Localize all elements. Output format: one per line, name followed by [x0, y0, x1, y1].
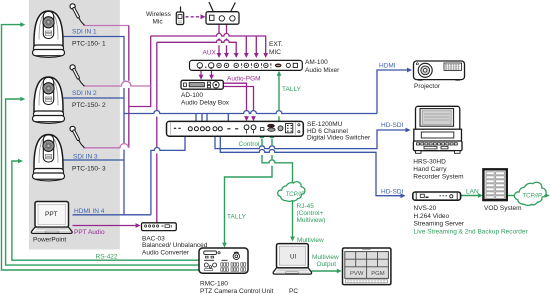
wire RS-422 camera1	[2, 25, 200, 270]
arrow LAN into VOD	[478, 193, 483, 198]
label TCP/IP right cloud	[523, 194, 542, 200]
label UI on screen	[290, 254, 296, 261]
arrow RS-422 camera1	[20, 22, 25, 27]
svg-text:SDI IN 1: SDI IN 1	[72, 29, 97, 36]
arrow multiview into PC	[290, 237, 295, 242]
svg-text:AM-100: AM-100	[305, 59, 328, 66]
svg-text:RMC-180: RMC-180	[200, 280, 228, 287]
svg-text:Audio Converter: Audio Converter	[142, 250, 190, 257]
svg-text:H.264 Video: H.264 Video	[414, 213, 450, 220]
controller RMC-180	[199, 248, 248, 273]
label TALLY upper	[282, 86, 302, 93]
arrow tally into RMC	[222, 243, 227, 248]
svg-text:PTC-150- 2: PTC-150- 2	[72, 102, 106, 109]
svg-text:TCP/IP: TCP/IP	[286, 192, 305, 198]
label SDI IN 2	[72, 90, 97, 97]
svg-text:HD-SDI: HD-SDI	[381, 122, 404, 129]
label PC	[289, 288, 298, 294]
wire HDMI IN 4 from laptop	[73, 214, 151, 216]
wire video input corridor	[124, 111, 377, 114]
wire mixer AUX to delay box 2	[211, 70, 213, 75]
camera PTC-150-1	[33, 11, 65, 58]
arrow bus B into mixer	[234, 53, 239, 58]
microphone 3	[70, 126, 85, 147]
wire bus A drops to mixer	[246, 36, 256, 54]
label RJ-45 Control+Multiview	[297, 203, 326, 224]
arrow dashed link into receiver	[201, 14, 206, 19]
arrows Audio-PGM into switcher	[244, 116, 256, 121]
svg-text:SDI IN 2: SDI IN 2	[72, 90, 97, 97]
svg-text:HRS-30HD: HRS-30HD	[413, 159, 446, 166]
arrow control into switcher 2	[270, 133, 275, 138]
wire multiview cloud to PC	[292, 200, 294, 237]
label PTC-150-3	[72, 165, 106, 172]
svg-text:PTZ Camera Control Unit: PTZ Camera Control Unit	[200, 288, 274, 294]
label Wireless Mic	[146, 11, 172, 25]
wire BAC audio trunk	[156, 42, 158, 223]
laptop PC	[273, 244, 312, 275]
projector	[414, 61, 465, 80]
svg-text:SDI IN 3: SDI IN 3	[73, 154, 98, 161]
svg-text:Streaming Server: Streaming Server	[414, 221, 465, 228]
camera PTC-150-2	[33, 77, 65, 124]
arrows receiver into mixer	[217, 53, 229, 58]
label Multiview into PC	[297, 237, 324, 244]
label Audio-PGM	[227, 76, 261, 83]
svg-text:Control: Control	[239, 141, 261, 148]
label PPT Audio	[74, 229, 105, 236]
camera PTC-150-3	[33, 135, 65, 182]
switcher SE-1200MU box	[167, 121, 304, 136]
laptop PowerPoint	[31, 202, 72, 234]
label RS-422	[96, 253, 118, 260]
svg-text:PTC-150- 1: PTC-150- 1	[72, 40, 106, 47]
wire control tally to RMC	[225, 139, 273, 244]
svg-text:Multiview: Multiview	[312, 254, 339, 261]
arrow TALLY into mixer	[277, 71, 282, 76]
svg-text:Multiview): Multiview)	[297, 217, 326, 224]
wire SDI camera2	[64, 97, 125, 99]
label Projector	[414, 83, 441, 90]
svg-text:RS-422: RS-422	[96, 253, 118, 260]
arrow into NVS server	[401, 193, 406, 198]
wire jog into switcher bottom	[151, 136, 185, 215]
label TALLY lower	[227, 213, 247, 220]
svg-text:AUX: AUX	[203, 50, 217, 57]
arrow multiview output	[337, 269, 342, 274]
wire LAN	[461, 195, 479, 197]
wire mic2 audio pigtail	[83, 81, 151, 86]
label NVS-20 server	[414, 205, 465, 228]
svg-text:Mic: Mic	[153, 18, 164, 25]
svg-text:Recorder System: Recorder System	[413, 174, 463, 181]
wire control RJ-45 branch	[262, 139, 293, 187]
wire HDMI to projector	[377, 70, 408, 114]
label Multiview Output	[312, 254, 339, 268]
svg-text:HD-SDI: HD-SDI	[381, 188, 404, 195]
svg-text:TALLY: TALLY	[227, 213, 247, 220]
label PowerPoint	[33, 237, 66, 244]
converter BAC-03	[142, 223, 177, 231]
svg-text:Live Streaming & 2nd Backup Re: Live Streaming & 2nd Backup Recorder	[414, 228, 529, 235]
wire wireless receiver out 1	[218, 24, 220, 54]
label SE-1200MU switcher	[307, 121, 371, 141]
label PTC-150-2	[72, 102, 106, 109]
wire Audio-PGM 1	[223, 83, 246, 117]
svg-text:Wireless: Wireless	[146, 11, 172, 18]
wire mic1 audio trunk	[129, 26, 151, 148]
svg-text:Audio Delay Box: Audio Delay Box	[181, 100, 230, 107]
arrow cloud outlet	[545, 193, 550, 198]
label AD-100 Audio Delay Box	[181, 92, 230, 107]
label SDI IN 1	[72, 29, 97, 36]
label HD-SDI upper	[381, 122, 404, 129]
svg-text:PTC-150- 3: PTC-150- 3	[72, 165, 106, 172]
svg-text:NVS-20: NVS-20	[414, 205, 437, 212]
label EXT. MIC	[269, 41, 283, 56]
wire wireless receiver out 2	[226, 24, 228, 54]
microphone 2	[70, 65, 85, 86]
svg-text:RJ-45: RJ-45	[297, 203, 315, 210]
arrow RS-422 camera3	[18, 159, 23, 164]
recorder HRS-30HD	[413, 106, 462, 153]
wire mixer AUX to delay box 1	[200, 70, 202, 75]
wire RS-422 camera2	[6, 99, 199, 265]
arrows into delay box	[199, 75, 214, 80]
svg-text:EXT.: EXT.	[269, 41, 283, 48]
label BAC-03 converter	[142, 236, 208, 257]
cloud TCP/IP right	[514, 182, 546, 205]
wire VOD to cloud	[507, 195, 517, 197]
room panel background	[29, 0, 120, 250]
label AUX	[203, 50, 217, 57]
arrow into projector	[407, 68, 412, 73]
wireless mic transmitter	[176, 7, 183, 25]
streaming server NVS-20	[413, 192, 461, 200]
svg-text:HDMI IN 4: HDMI IN 4	[74, 208, 105, 215]
VOD server tower	[483, 169, 506, 200]
svg-text:PowerPoint: PowerPoint	[33, 237, 66, 244]
svg-text:(Control+: (Control+	[297, 210, 324, 217]
svg-text:UI: UI	[290, 254, 296, 261]
svg-text:VOD System: VOD System	[484, 205, 522, 212]
svg-text:PVW: PVW	[350, 271, 364, 277]
svg-text:TCP/IP: TCP/IP	[523, 194, 542, 200]
svg-text:Output: Output	[317, 261, 337, 268]
label HD-SDI lower	[381, 188, 404, 195]
wireless receiver	[206, 2, 239, 24]
label LAN	[466, 188, 479, 195]
label SDI IN 3	[73, 154, 98, 161]
svg-text:AD-100: AD-100	[181, 92, 203, 99]
audio mixer AM-100 box	[190, 60, 303, 70]
cloud TCP/IP left	[278, 182, 305, 202]
arrows bus A into mixer	[244, 53, 268, 58]
svg-text:Audio-PGM: Audio-PGM	[227, 76, 261, 83]
wire mic3 audio pigtail	[83, 144, 128, 148]
wire mic1 audio pigtail	[83, 25, 129, 27]
svg-text:Multiview: Multiview	[297, 237, 324, 244]
svg-text:Balanced/ Unbalanced: Balanced/ Unbalanced	[142, 242, 208, 249]
wire wireless mic dashed link	[186, 16, 201, 18]
wire multiview output to monitor	[312, 270, 338, 272]
svg-text:Audio Mixer: Audio Mixer	[305, 67, 340, 74]
svg-text:PC: PC	[289, 288, 298, 294]
wire cloud outlet	[543, 195, 546, 197]
wire TALLY switcher to mixer	[278, 75, 280, 122]
arrow RS-422 camera2	[20, 97, 25, 102]
label TCP/IP left cloud	[286, 192, 305, 198]
microphone 1	[70, 4, 85, 25]
arrow PPT Audio into BAC	[136, 223, 141, 228]
wire RS-422 camera3	[12, 161, 199, 260]
audio delay box AD-100	[181, 80, 223, 89]
label HRS-30HD recorder	[413, 159, 463, 181]
label RMC-180	[200, 280, 274, 294]
label Live Streaming note	[414, 228, 529, 235]
wire SDI camera1 to trunk	[64, 37, 125, 215]
wire audio bus A to mixer	[151, 33, 266, 54]
svg-text:LAN: LAN	[466, 188, 479, 195]
wire HD-SDI to NVS streaming server	[220, 136, 401, 196]
label HDMI IN 4	[74, 208, 105, 215]
svg-text:TALLY: TALLY	[282, 86, 302, 93]
label PTC-150-1	[72, 40, 106, 47]
svg-text:HDMI: HDMI	[379, 63, 396, 70]
wire Audio-PGM 2	[223, 87, 253, 118]
label Control	[239, 141, 261, 148]
svg-text:PGM: PGM	[371, 271, 385, 277]
svg-text:Hand Carry: Hand Carry	[413, 166, 447, 173]
label PPT on screen	[45, 211, 58, 218]
label VOD System	[484, 205, 522, 212]
svg-text:PPT: PPT	[45, 211, 58, 218]
svg-text:MIC: MIC	[269, 49, 281, 56]
wire switcher input drops	[196, 114, 228, 127]
wire SDI camera3	[64, 159, 125, 161]
svg-text:Digital Video Switcher: Digital Video Switcher	[307, 135, 371, 142]
wire HD-SDI to HRS recorder	[215, 130, 406, 149]
label HDMI	[379, 63, 396, 70]
arrow control into switcher 1	[260, 133, 265, 138]
wire audio bus B to mixer	[157, 40, 236, 54]
label AM-100 Audio Mixer	[305, 59, 340, 74]
arrow into HRS recorder	[406, 128, 411, 133]
svg-text:PPT Audio: PPT Audio	[74, 229, 105, 236]
multiview monitor	[343, 248, 391, 285]
svg-text:Projector: Projector	[414, 83, 441, 90]
wire PPT Audio	[73, 225, 137, 227]
